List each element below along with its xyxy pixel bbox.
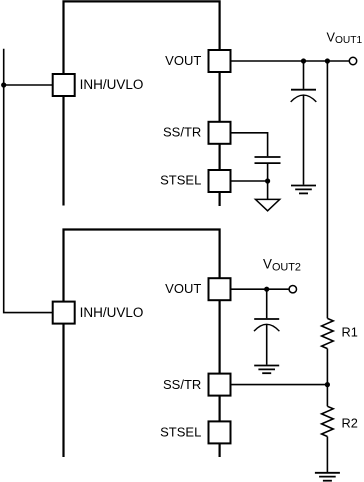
svg-text:R1: R1 [342, 325, 358, 340]
svg-text:R2: R2 [342, 416, 358, 431]
svg-text:SS/TR: SS/TR [163, 377, 201, 392]
svg-text:VOUT: VOUT [165, 53, 201, 68]
svg-text:VOUT: VOUT [165, 281, 201, 296]
svg-text:INH/UVLO: INH/UVLO [80, 305, 144, 320]
svg-text:STSEL: STSEL [160, 172, 201, 187]
svg-text:STSEL: STSEL [160, 425, 201, 440]
svg-text:SS/TR: SS/TR [163, 125, 201, 140]
svg-text:INH/UVLO: INH/UVLO [80, 77, 144, 92]
